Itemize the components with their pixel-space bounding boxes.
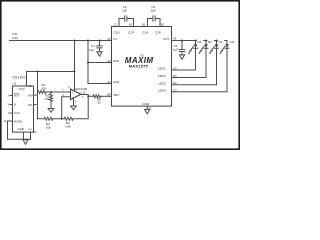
svg-text:CLK: CLK bbox=[14, 111, 20, 115]
wire op-amp gnd stub bbox=[73, 98, 75, 106]
wire RST stub bbox=[10, 95, 13, 97]
wire op-amp output bbox=[81, 95, 93, 97]
svg-text:D2: D2 bbox=[208, 40, 212, 44]
svg-text:IN: IN bbox=[114, 37, 117, 41]
svg-text:EN1: EN1 bbox=[114, 59, 120, 63]
svg-text:C2P: C2P bbox=[155, 31, 161, 35]
svg-text:10: 10 bbox=[33, 130, 36, 134]
wire supply drop to op-amp pin5 bbox=[74, 41, 76, 92]
svg-text:1µF: 1µF bbox=[173, 48, 178, 52]
wire AGND to ground bbox=[8, 121, 31, 139]
svg-text:D3: D3 bbox=[219, 40, 223, 44]
svg-text:A4: A4 bbox=[107, 80, 111, 84]
junction VCC line x73.5 bbox=[74, 71, 76, 73]
junction D1 bbox=[195, 40, 197, 42]
svg-text:L1: L1 bbox=[29, 127, 33, 131]
op-amp U2 MAX4400 bbox=[71, 87, 88, 99]
svg-text:10k: 10k bbox=[46, 125, 51, 129]
junction inverting node bbox=[61, 118, 63, 120]
svg-text:1µF: 1µF bbox=[151, 9, 156, 13]
wire C1N stub bbox=[119, 19, 124, 27]
junction on VIN rail at x=88.5 bbox=[87, 40, 89, 42]
wire W1 stub bbox=[34, 104, 37, 106]
junction on VIN rail at x=73.5 bbox=[74, 40, 76, 42]
LED D1 bbox=[188, 39, 203, 70]
wire L1 stub U1 bbox=[30, 132, 32, 139]
svg-text:LED2: LED2 bbox=[158, 74, 166, 78]
ground C1 bbox=[97, 52, 102, 56]
junction C4 bbox=[181, 40, 183, 42]
wire R1 to op-amp bbox=[51, 91, 71, 93]
wire GND stub U1 bbox=[23, 132, 25, 139]
svg-text:C1: C1 bbox=[114, 23, 118, 27]
svg-text:B1: B1 bbox=[142, 23, 146, 27]
wire divider drop x39 bbox=[37, 72, 39, 119]
svg-text:U2: U2 bbox=[82, 90, 86, 94]
svg-text:DS1801: DS1801 bbox=[13, 76, 27, 80]
svg-text:A3: A3 bbox=[107, 59, 111, 63]
svg-text:5k: 5k bbox=[97, 101, 101, 105]
wire CLK stub bbox=[10, 112, 13, 114]
svg-text:10k: 10k bbox=[41, 86, 46, 90]
wire OUT rail bbox=[172, 40, 228, 42]
ground U2 bbox=[71, 106, 77, 110]
LED D4 bbox=[220, 40, 235, 92]
wire LED1 cathode bbox=[172, 69, 196, 71]
LED D3 bbox=[209, 39, 224, 85]
IC U1 DS1801 bbox=[13, 86, 34, 132]
resistor R2 bbox=[44, 92, 52, 109]
svg-text:LED1: LED1 bbox=[158, 67, 166, 71]
ground U1 bbox=[23, 140, 28, 144]
wire R4 to junction bbox=[62, 118, 64, 120]
svg-text:C2N: C2N bbox=[142, 31, 148, 35]
svg-text:EN2: EN2 bbox=[114, 80, 120, 84]
capacitor C1 bbox=[89, 41, 102, 53]
svg-text:U1: U1 bbox=[13, 82, 17, 86]
junction EN1 branch bbox=[87, 62, 89, 64]
resistor R4 bbox=[64, 117, 73, 128]
resistor R3 bbox=[44, 117, 62, 129]
svg-text:GND: GND bbox=[18, 127, 26, 131]
pin numbers U1 bbox=[4, 84, 37, 134]
svg-text:LED3: LED3 bbox=[158, 81, 166, 85]
wire D stub bbox=[10, 104, 13, 106]
junction D3 bbox=[216, 40, 218, 42]
svg-text:RST: RST bbox=[14, 94, 20, 98]
svg-text:C2: C2 bbox=[107, 37, 111, 41]
svg-text:W1: W1 bbox=[28, 103, 33, 107]
capacitor C4 bbox=[173, 41, 185, 55]
svg-text:B2: B2 bbox=[161, 23, 165, 27]
wire C2P stub bbox=[156, 19, 160, 27]
wire R5 to SET bbox=[101, 95, 112, 97]
junction D2 bbox=[205, 40, 207, 42]
node VIN label bbox=[12, 32, 18, 40]
junction R2 top bbox=[50, 91, 52, 93]
capacitor C2 bbox=[122, 5, 127, 21]
wire C2N stub bbox=[148, 19, 152, 27]
ground U3 bbox=[145, 110, 150, 114]
wire LED2 cathode bbox=[172, 77, 207, 79]
svg-text:D4: D4 bbox=[231, 40, 235, 44]
svg-text:AGND: AGND bbox=[14, 119, 24, 123]
wire C1P stub bbox=[128, 19, 134, 27]
junction output feedback bbox=[87, 95, 89, 97]
svg-text:1.8k: 1.8k bbox=[65, 124, 71, 128]
wire U3 GND stub bbox=[146, 106, 148, 109]
svg-text:3.3V: 3.3V bbox=[12, 36, 18, 40]
svg-text:D1: D1 bbox=[198, 40, 202, 44]
wire LED4 cathode bbox=[172, 91, 228, 93]
svg-text:GND: GND bbox=[143, 102, 151, 106]
pin bump labels U3 bbox=[107, 23, 177, 111]
svg-text:LED4: LED4 bbox=[158, 89, 166, 93]
svg-text:C1N: C1N bbox=[114, 31, 120, 35]
wire inverting input bbox=[62, 97, 71, 119]
capacitor C3 bbox=[151, 5, 156, 21]
resistor R5 bbox=[93, 95, 101, 105]
svg-text:OUT: OUT bbox=[163, 37, 170, 41]
junction C1 on rail bbox=[99, 40, 101, 42]
ground C4 bbox=[179, 55, 184, 59]
wire feedback drop bbox=[73, 96, 88, 118]
wire W0 stub bbox=[34, 94, 38, 96]
svg-text:VCC: VCC bbox=[19, 87, 26, 91]
page border frame bbox=[1, 1, 239, 149]
svg-text:C1P: C1P bbox=[128, 31, 134, 35]
svg-text:1.8k: 1.8k bbox=[44, 97, 50, 101]
wire VIN rail bbox=[10, 40, 112, 42]
wire VCC riser bbox=[27, 72, 75, 87]
pin number labels U2 bbox=[62, 85, 84, 103]
svg-text:16: 16 bbox=[29, 84, 32, 88]
junction VCC line x40 bbox=[37, 71, 39, 73]
LED D2 bbox=[199, 39, 214, 78]
svg-text:MAX1575: MAX1575 bbox=[129, 64, 149, 69]
resistor R1 bbox=[38, 83, 52, 94]
svg-text:W0: W0 bbox=[28, 93, 33, 97]
wire LED3 cathode bbox=[172, 84, 217, 86]
svg-text:A1: A1 bbox=[129, 23, 133, 27]
svg-text:1µF: 1µF bbox=[89, 48, 94, 52]
wire EN drop bbox=[88, 41, 112, 84]
ground R2 bbox=[48, 109, 54, 113]
IC U3 MAX1575 bbox=[112, 27, 172, 107]
svg-text:SET: SET bbox=[114, 93, 120, 97]
wire R3 left bbox=[38, 118, 45, 120]
svg-text:1µF: 1µF bbox=[122, 9, 127, 13]
svg-text:12: 12 bbox=[4, 119, 7, 123]
